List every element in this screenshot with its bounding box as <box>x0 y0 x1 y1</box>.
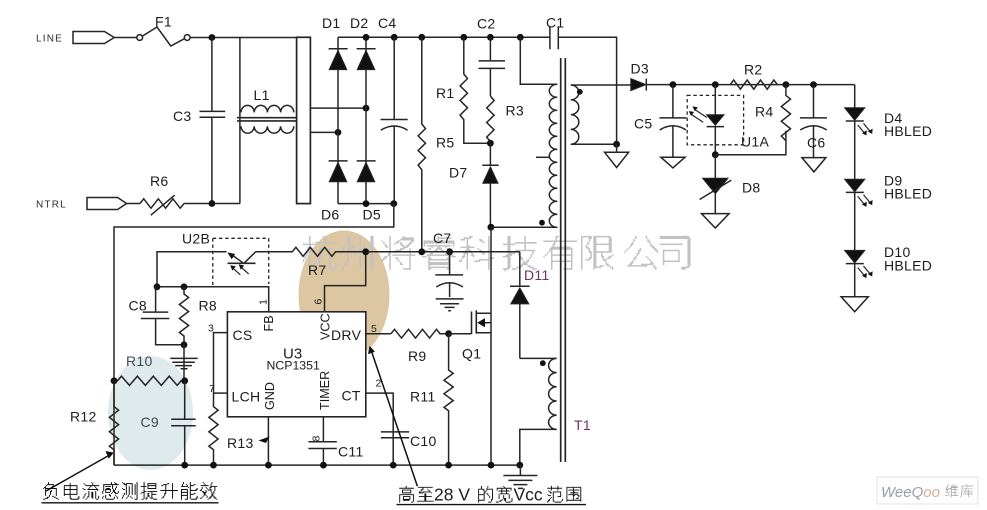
transformer T1 secondary winding <box>571 85 579 144</box>
transformer T1 core <box>561 58 566 462</box>
svg-text:R6: R6 <box>150 173 169 189</box>
capacitor C5 electrolytic <box>659 85 686 158</box>
svg-text:D2: D2 <box>350 15 369 31</box>
wire secondary top to D3 <box>571 84 631 86</box>
svg-text:R9: R9 <box>408 348 427 364</box>
node FB wire C8 <box>154 283 161 290</box>
ground C7 bars <box>436 299 464 311</box>
svg-text:8: 8 <box>311 436 323 442</box>
node GND rail <box>265 462 272 469</box>
WeeQoo watermark box bottom right <box>877 477 978 504</box>
node C9 rail <box>181 462 188 469</box>
marker R13 arrow <box>259 437 270 444</box>
connector LINE <box>73 32 114 44</box>
svg-text:R1: R1 <box>436 85 455 101</box>
svg-text:7: 7 <box>209 383 215 395</box>
node bridge bottom D5 <box>363 200 370 207</box>
U2B light arrows <box>230 264 248 274</box>
wire gate <box>449 333 472 335</box>
resistor R3 <box>487 96 494 143</box>
annotation arrow to DRV pin <box>368 346 417 487</box>
node aux phase dot <box>540 360 546 366</box>
wire fuse to box, top rail left <box>190 37 297 39</box>
annotation arrow to C9 R12 <box>46 451 114 491</box>
svg-text:LCH: LCH <box>232 389 261 405</box>
node Vcc rail R5 <box>418 248 425 255</box>
wire CS pin net <box>214 333 228 394</box>
wire bottom ground rail <box>114 464 520 466</box>
LED D10 <box>845 250 865 296</box>
node R11 rail <box>445 462 452 469</box>
annotation text negative current sense <box>42 482 219 503</box>
node C11 rail <box>320 462 327 469</box>
wire secondary output rail <box>646 84 854 86</box>
highlight ellipse over R7/VCC area <box>299 231 390 360</box>
ground LED string triangle <box>841 297 868 312</box>
ground C6 triangle <box>802 158 826 172</box>
node stub D2 <box>363 105 370 112</box>
resistor R4 <box>781 85 790 141</box>
optocoupler U1A LED <box>707 85 724 155</box>
svg-text:C4: C4 <box>378 15 397 31</box>
ground below R8 <box>170 345 197 381</box>
wire stub box to D1 column <box>310 131 338 133</box>
diode D1 <box>329 49 348 70</box>
svg-text:C2: C2 <box>477 16 496 32</box>
node R9 R11 gate <box>445 330 452 337</box>
LED D9 <box>845 179 865 250</box>
svg-text:FB: FB <box>262 315 276 331</box>
resistor R11 <box>444 334 453 465</box>
fuse F1 <box>137 27 190 46</box>
wire Q1 drain up <box>490 227 492 333</box>
resistor R12 <box>109 381 118 465</box>
node Vcc rail C7 <box>446 248 453 255</box>
D4 light arrows <box>858 123 873 135</box>
wire U2B emitter to C8 corner <box>157 252 227 287</box>
svg-text:Q1: Q1 <box>462 346 481 362</box>
svg-text:TIMER: TIMER <box>318 371 332 410</box>
svg-text:D6: D6 <box>321 207 340 223</box>
node drain wire <box>488 224 495 231</box>
svg-text:3: 3 <box>208 323 214 335</box>
wire DC return to control loop <box>114 204 394 466</box>
diode D3 <box>631 79 647 91</box>
diode D7 <box>482 143 498 227</box>
svg-text:CS: CS <box>233 327 253 343</box>
node transformer primary phase dot <box>539 220 545 226</box>
node U1A top <box>712 81 719 88</box>
svg-text:C5: C5 <box>634 116 653 132</box>
node top rail R1 <box>460 34 467 41</box>
svg-text:C3: C3 <box>173 108 192 124</box>
capacitor C9 <box>171 381 196 465</box>
node C6 top <box>810 81 817 88</box>
svg-text:D3: D3 <box>631 61 650 77</box>
svg-text:C1: C1 <box>546 15 565 31</box>
svg-text:HBLED: HBLED <box>884 258 932 274</box>
svg-text:Vcc: Vcc <box>514 485 543 505</box>
optocoupler U2B phototransistor <box>227 252 255 263</box>
svg-text:LINE: LINE <box>36 34 63 45</box>
svg-text:NTRL: NTRL <box>36 200 67 211</box>
node secondary phase dot <box>577 89 583 95</box>
wire Q1 source down <box>490 333 492 465</box>
transformer T1 primary winding <box>536 84 557 227</box>
node Vcc rail VCC pin <box>362 248 369 255</box>
LED D4 <box>845 108 865 179</box>
node top rail transformer <box>517 34 524 41</box>
svg-text:GND: GND <box>263 382 277 410</box>
node at C3 top <box>209 34 216 41</box>
D10 light arrows <box>858 266 873 278</box>
wire D11 to aux winding top <box>520 357 557 359</box>
capacitor C6 electrolytic <box>800 85 827 158</box>
capacitor C10 <box>381 432 409 438</box>
svg-text:NCP1351: NCP1351 <box>267 359 320 373</box>
wire DRV to R9 <box>366 333 391 335</box>
svg-text:R2: R2 <box>744 62 763 78</box>
svg-text:U1A: U1A <box>741 134 769 150</box>
svg-text:C6: C6 <box>807 135 826 151</box>
node top rail D2 <box>363 34 370 41</box>
node secondary return <box>613 141 620 148</box>
wire bridge right column <box>365 37 367 203</box>
resistor R7 on Vcc rail <box>256 247 520 256</box>
capacitor C2 <box>479 37 506 96</box>
svg-text:CT: CT <box>342 388 361 404</box>
svg-text:C10: C10 <box>410 433 437 449</box>
capacitor C11 <box>308 442 336 465</box>
svg-text:R4: R4 <box>755 104 774 120</box>
svg-text:C8: C8 <box>129 298 148 314</box>
D9 light arrows <box>858 195 873 207</box>
svg-text:D7: D7 <box>449 165 468 181</box>
svg-text:5: 5 <box>371 323 377 335</box>
svg-text:U2B: U2B <box>182 231 210 247</box>
node stub D1 <box>335 129 342 136</box>
node R4 top <box>783 81 790 88</box>
wire CT pin net <box>366 393 393 465</box>
svg-text:R3: R3 <box>506 103 525 119</box>
svg-text:6: 6 <box>313 299 325 305</box>
svg-text:R8: R8 <box>199 298 218 314</box>
diode D6 <box>329 161 348 182</box>
node U1A cathode <box>712 151 719 158</box>
capacitor C1 top <box>550 26 617 144</box>
wire FB net <box>157 287 269 312</box>
inductor L1 common-mode choke <box>237 38 296 204</box>
wire drain to primary <box>491 226 557 228</box>
node bridge bottom corner <box>390 200 397 207</box>
optocoupler U1A dashed box <box>687 95 743 144</box>
svg-text:R5: R5 <box>436 135 455 151</box>
U1A light arrows <box>689 106 707 122</box>
wire bridge left column <box>337 37 339 203</box>
svg-text:D5: D5 <box>363 207 382 223</box>
wire secondary bottom <box>571 143 617 145</box>
wire NTRL input <box>87 198 140 210</box>
wire LED string top <box>854 85 856 108</box>
zener diode D8 <box>700 155 732 214</box>
resistor R9 <box>391 329 449 338</box>
capacitor C8 <box>141 287 184 345</box>
wire bridge bottom rail <box>338 203 394 205</box>
svg-text:28 V: 28 V <box>434 485 470 505</box>
node C10 rail <box>390 462 397 469</box>
wire aux winding bottom <box>520 429 557 465</box>
svg-text:D11: D11 <box>524 267 550 283</box>
wire TIMER pin 8 lead <box>322 417 324 442</box>
svg-text:DRV: DRV <box>331 327 362 343</box>
wire R6 to L1 <box>184 203 240 205</box>
resistor R8 <box>179 287 188 345</box>
svg-text:D1: D1 <box>322 15 341 31</box>
svg-text:VCC: VCC <box>319 313 333 340</box>
capacitor C7 electrolytic <box>435 252 463 297</box>
svg-text:R11: R11 <box>410 389 436 405</box>
capacitor C4 electrolytic <box>381 37 408 203</box>
highlight ellipse over C9 area <box>108 356 193 470</box>
diode D2 <box>357 49 376 70</box>
node NTRL rail <box>209 200 216 207</box>
node R8 bottom <box>181 341 188 348</box>
resistor R6 (fusible) <box>140 195 184 215</box>
ground C5 triangle <box>661 157 685 168</box>
node R10 left <box>111 377 118 384</box>
svg-text:C7: C7 <box>433 230 452 246</box>
svg-text:HBLED: HBLED <box>884 186 932 202</box>
node R10 right <box>181 377 188 384</box>
wire LCH pin lead <box>214 392 228 394</box>
wire top rail right <box>338 36 550 38</box>
svg-text:R12: R12 <box>70 409 97 425</box>
svg-text:R13: R13 <box>227 435 254 451</box>
wire U1A to R4 bottom <box>715 131 786 155</box>
node C5 top <box>670 81 677 88</box>
svg-text:HBLED: HBLED <box>884 123 932 139</box>
wire top rail to primary top <box>520 37 557 84</box>
resistor R10 <box>114 376 185 385</box>
node aux to rail <box>516 462 523 469</box>
svg-text:F1: F1 <box>155 14 172 30</box>
annotation text wide Vcc range <box>397 485 587 505</box>
node R13 rail <box>210 462 217 469</box>
svg-text:R10: R10 <box>126 353 153 369</box>
svg-text:R7: R7 <box>308 262 327 278</box>
resistor R2 <box>730 80 777 89</box>
svg-text:C9: C9 <box>141 414 160 430</box>
node R1 R3 junction <box>487 140 494 147</box>
node Q1 source rail <box>488 462 495 469</box>
node top rail R5 <box>418 34 425 41</box>
node top rail C4 <box>391 34 398 41</box>
diode D11 <box>510 252 530 359</box>
wire GND pin lead <box>267 417 269 465</box>
optocoupler U2B dashed box <box>213 238 269 285</box>
svg-text:C11: C11 <box>338 444 364 460</box>
node FB wire R8 <box>181 283 188 290</box>
ground secondary return triangle <box>605 144 629 167</box>
svg-text:WeeQoo: WeeQoo <box>881 484 940 501</box>
wire LINE to fuse <box>114 37 136 39</box>
X-capacitor box after choke <box>297 37 311 203</box>
ground main bars <box>503 465 537 488</box>
watermark hanzi row <box>303 236 691 271</box>
diode D5 <box>357 161 376 182</box>
svg-text:1: 1 <box>258 299 270 305</box>
resistor R5 column <box>418 37 425 252</box>
svg-text:D8: D8 <box>742 180 761 196</box>
capacitor C3 <box>200 38 226 204</box>
ground D8 triangle <box>702 214 730 228</box>
svg-text:L1: L1 <box>254 87 270 103</box>
transistor Q1 MOSFET <box>472 310 492 334</box>
svg-text:T1: T1 <box>574 417 591 433</box>
chip U3 body <box>227 312 365 417</box>
resistor R13 <box>209 393 218 465</box>
transformer T1 aux winding <box>549 358 557 429</box>
node top rail C2 <box>487 34 494 41</box>
wire stub box to D2 column <box>310 107 366 109</box>
resistor R1 column <box>460 37 490 143</box>
wire VCC pin net <box>325 252 366 312</box>
